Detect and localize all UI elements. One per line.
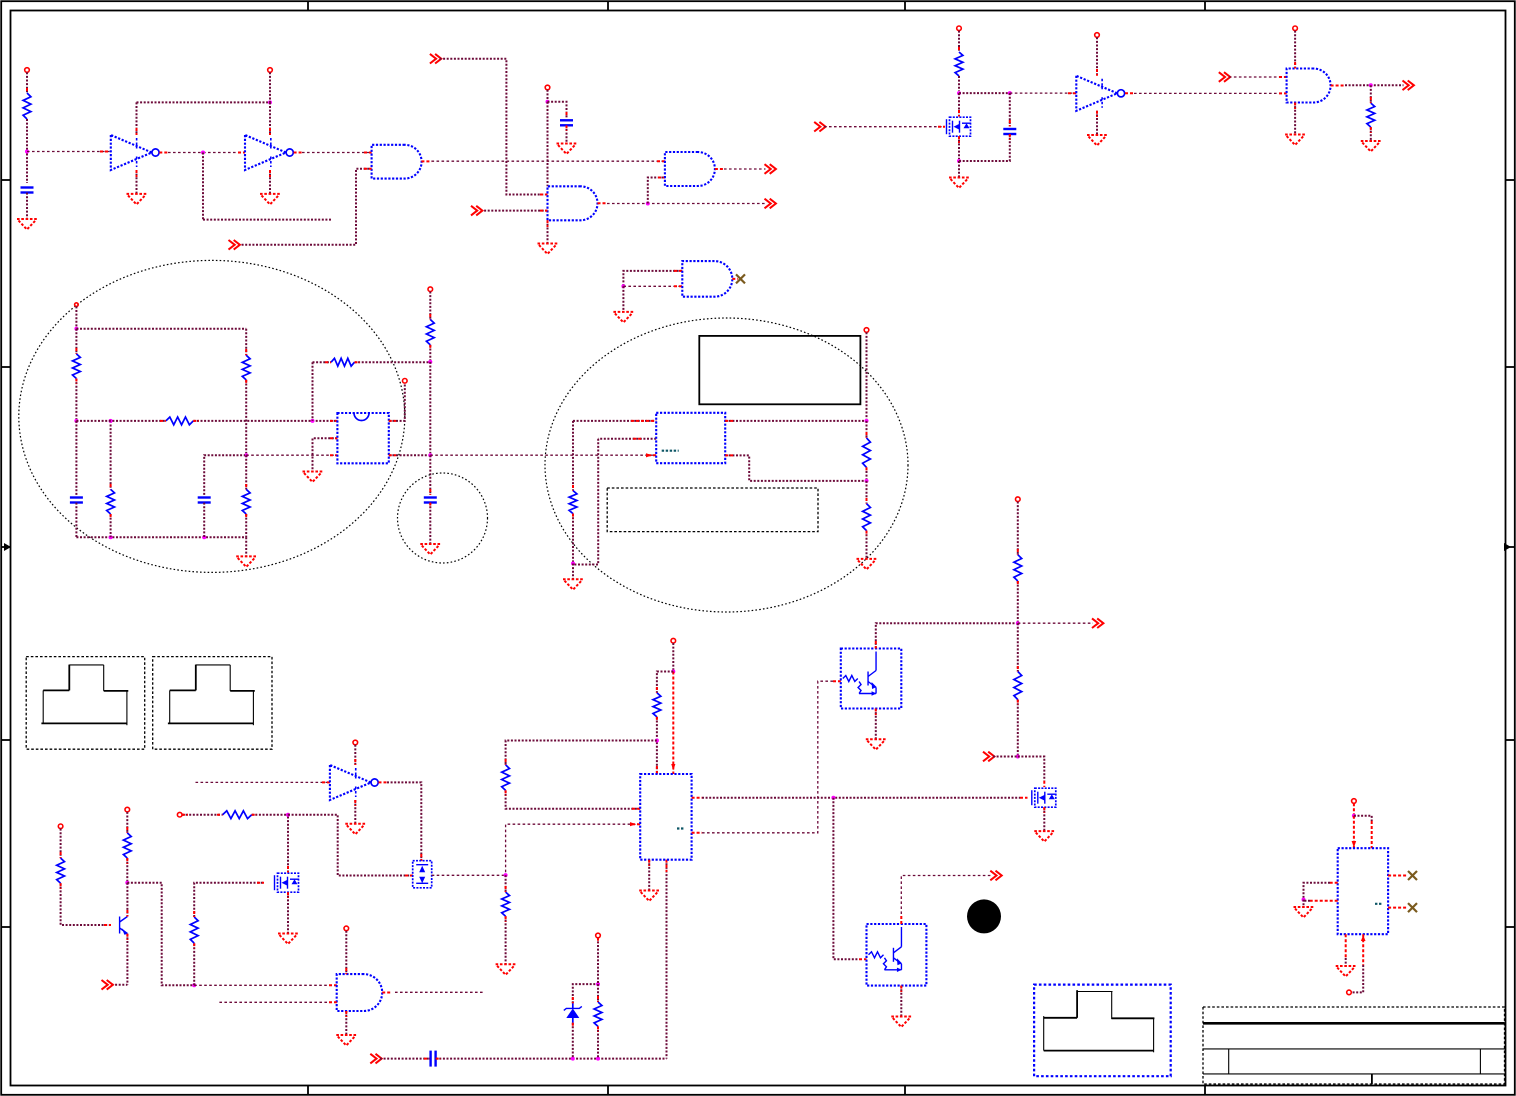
wire R17 to M2 drain node	[252, 814, 288, 816]
power VCC above G3	[545, 85, 550, 90]
node B junction	[74, 327, 78, 331]
wire U5 pinE right	[725, 455, 866, 481]
wire pin to R14	[60, 829, 62, 859]
ground below G6	[336, 1035, 356, 1046]
bottom rail wire right	[436, 1058, 667, 1060]
sheet connector arrow G3 output	[765, 199, 776, 209]
wire VCC to junction	[269, 72, 271, 102]
power VCC above R15	[125, 807, 130, 812]
wire G3 upper net	[440, 59, 548, 195]
wire U2 out to G1	[294, 152, 372, 154]
ground below C2	[557, 144, 577, 155]
resistor R4	[73, 354, 81, 379]
wire U5 pinD right	[725, 420, 866, 422]
capacitor C7	[431, 1051, 436, 1067]
waveform drawing 3	[1044, 990, 1155, 1052]
ground below Q3	[866, 739, 886, 750]
U8 pinB jog wire	[1354, 816, 1372, 849]
AND gate G6	[337, 974, 383, 1011]
wire VCC to R22	[1017, 502, 1019, 555]
U8 ground pin wire	[1345, 934, 1347, 966]
wire node B to R4	[75, 329, 77, 354]
sheet connector arrow Q1 emitter	[102, 980, 113, 990]
junction Q1 collector node	[125, 881, 129, 885]
no-connect X at U8 pinR2	[1408, 903, 1417, 912]
power VCC symbol top-left	[25, 68, 30, 73]
wire arrow to M1 gate	[824, 126, 945, 128]
wire open pin down	[866, 332, 868, 419]
resistor R22	[1014, 555, 1022, 581]
ground below U2	[260, 194, 280, 205]
wire R15 to collector node	[126, 858, 128, 881]
junction bottom rail left	[109, 535, 113, 539]
open pin marker top of RC	[75, 303, 79, 307]
resistor R17	[223, 811, 252, 819]
blue dashed waveform box	[1034, 985, 1171, 1077]
G3 ground pin wire	[547, 220, 549, 243]
sheet connector arrow Q3 node	[1092, 618, 1103, 628]
wire down to C6	[429, 455, 431, 495]
MOSFET M3	[413, 861, 432, 888]
power VCC above G5	[1293, 26, 1298, 31]
wire node C to C4	[75, 421, 77, 495]
ground below U8 left	[1294, 907, 1314, 918]
wire pinB down	[573, 439, 598, 565]
wire R23 to M4 node	[1017, 700, 1019, 755]
capacitor C3	[1003, 129, 1016, 134]
U4 power pin wire	[1096, 37, 1098, 76]
wire C1 to ground	[26, 193, 28, 219]
MOSFET M1	[947, 117, 972, 136]
sheet connector arrow G5 output	[1403, 81, 1414, 91]
junction right chain lower	[865, 479, 869, 483]
power VCC above R10	[428, 287, 433, 292]
wire VCC node to C2	[548, 102, 567, 117]
wire arrow to emitter	[112, 984, 128, 986]
junction Q3 collector node	[1016, 621, 1020, 625]
wire R16 chain	[193, 943, 195, 985]
U4 ground pin wire	[1096, 111, 1098, 135]
converter block U8	[1338, 848, 1388, 934]
U8 pinA red pin	[1352, 816, 1357, 849]
ground below U1	[127, 194, 147, 205]
wire G5 node to R3	[1370, 85, 1372, 103]
right branch middle wire	[245, 380, 247, 453]
G6 output wire	[382, 991, 484, 993]
resistor R18	[502, 892, 510, 916]
inverter U3	[330, 765, 378, 800]
right branch lower wire	[245, 455, 247, 489]
open pin above R14	[58, 824, 63, 829]
ground below B1 pin2	[303, 472, 323, 483]
annotation ellipse 3	[545, 318, 908, 612]
wire U4 out to G5 lower	[1125, 92, 1287, 94]
G6 ground pin wire	[345, 1011, 347, 1035]
U3 power pin wire	[354, 745, 356, 765]
wire C3 top	[1009, 93, 1011, 126]
annotation dashed box 2	[153, 657, 272, 750]
annotation dashed box 1	[26, 657, 145, 750]
U6 ground pin wire	[648, 860, 650, 891]
U1 ground pin wire	[136, 170, 138, 194]
G4 output no-connect stub	[732, 278, 738, 280]
wire G4 lower input	[623, 285, 682, 287]
wire R22 to collector node	[1017, 581, 1019, 622]
wire R14 to Q1 base	[61, 883, 111, 925]
wire drain node right	[959, 92, 1010, 94]
ground below G4 bus	[613, 312, 633, 323]
U6 pinB long red pin	[671, 672, 675, 775]
wire node to M4 drain	[1018, 757, 1045, 788]
wire U5 pinB loop	[598, 438, 656, 440]
inverter U4	[1076, 76, 1124, 111]
wire to R12	[866, 421, 868, 438]
IGBT Q4	[867, 924, 927, 986]
resistor R3	[1367, 103, 1375, 127]
sheet connector arrow Q4 collector	[990, 871, 1001, 881]
junction M1 source node	[957, 159, 961, 163]
power VCC above M1	[957, 26, 962, 31]
wire pin to node B	[75, 306, 77, 327]
wire R19 to bottom rail	[597, 1026, 599, 1058]
capacitor C5	[198, 498, 211, 503]
wire drain node to U4 input	[1010, 92, 1077, 94]
junction M3 output node	[504, 873, 508, 877]
sheet connector arrow G3 lower	[471, 206, 482, 216]
long vertical to U6	[666, 860, 668, 1059]
MOSFET M4	[1032, 788, 1057, 807]
junction R10 bottom	[428, 360, 432, 364]
wire vcc to R1	[26, 72, 28, 93]
wire D1 top loop	[573, 984, 598, 1003]
M2 drain wire	[287, 817, 289, 873]
resistor R8	[166, 417, 193, 425]
wire R3 to ground	[1370, 127, 1372, 141]
U8 pinL2 wire	[1304, 900, 1338, 902]
sheet connector arrow bottom cap	[370, 1054, 381, 1064]
wire R11 to junction	[572, 514, 574, 564]
wire R13 to ground	[866, 531, 868, 559]
junction M1 drain node	[957, 91, 961, 95]
node A junction	[25, 150, 29, 154]
junction VCC zener node	[596, 982, 600, 986]
border zone ticks right	[1506, 180, 1515, 927]
M1 drain wire	[958, 93, 960, 116]
capacitor C6	[424, 498, 437, 503]
junction right branch	[244, 453, 248, 457]
wire VCC to R15	[126, 812, 128, 833]
bottom rail wire	[76, 536, 246, 538]
wire G1 output to G2	[421, 160, 665, 162]
ground in small circle	[420, 544, 440, 555]
junction cap circle top	[428, 453, 432, 457]
U1 power pin wire	[136, 102, 138, 135]
wire C4 to bottom rail	[75, 503, 77, 538]
sheet connector arrow M4 node	[983, 752, 994, 762]
waveform drawing 1	[41, 665, 128, 726]
AND gate G5	[1287, 69, 1331, 103]
resistor R21	[502, 765, 510, 791]
ground below R13	[857, 559, 877, 570]
resistor R1	[23, 93, 31, 119]
resistor R10	[426, 320, 434, 345]
U6 top left branch	[657, 672, 673, 693]
ground below U4	[1087, 135, 1107, 146]
resistor R16	[190, 917, 198, 943]
wire C2 to ground	[566, 125, 568, 143]
wire C3 bottom loop	[959, 134, 1010, 161]
M2 source wire	[287, 892, 289, 933]
wire U5 pinA	[573, 420, 656, 422]
wire R10 to junction	[429, 345, 431, 360]
wire node to R19	[597, 984, 599, 1002]
annotation ellipse 1	[19, 260, 405, 572]
U6 pinL2 wire	[506, 822, 641, 873]
wire G5 output	[1331, 84, 1404, 86]
U2 ground pin wire	[269, 170, 271, 194]
wire R12 to junction	[866, 467, 868, 479]
wire G3 lower input	[481, 210, 548, 212]
top rail wire	[76, 328, 246, 330]
wire B1 pin2 and ground	[313, 438, 338, 471]
G6 power pin wire	[345, 931, 347, 974]
resistor R11	[569, 491, 577, 514]
ground below R11	[563, 579, 583, 590]
ground below Q4	[891, 1017, 911, 1028]
capacitor C4	[70, 498, 83, 503]
power VCC above U8	[1352, 799, 1357, 804]
wire G3 output	[598, 202, 766, 204]
ground below U3	[345, 824, 365, 835]
feedback resistor wire left	[313, 361, 332, 363]
power VCC symbol above U2	[268, 68, 273, 73]
MOSFET M2	[275, 873, 300, 892]
transistor Q1	[120, 917, 128, 935]
U6 pinR2 wire	[692, 681, 841, 833]
wire VCC to R10	[429, 292, 431, 320]
logic block U5	[656, 413, 725, 463]
inverter U2	[245, 135, 293, 170]
ground below M4	[1034, 831, 1054, 842]
resistor R15	[123, 833, 131, 858]
wire drain node to M3	[288, 815, 413, 876]
annotation dashed rectangle	[607, 488, 818, 532]
waveform drawing 2	[168, 665, 255, 726]
junction U6 top node	[671, 670, 675, 674]
junction U6 left loop	[655, 739, 659, 743]
junction G5 output node	[1369, 83, 1373, 87]
ground below U6	[639, 891, 659, 902]
mid-low rail to U5 pinC	[430, 453, 656, 457]
U6 left loop wire	[506, 741, 657, 765]
junction feedback-VCC	[268, 100, 272, 104]
wire U8 left node to ground	[1303, 900, 1305, 907]
wire R21 to U6 pinL1	[506, 790, 641, 808]
open pin right of B1	[403, 379, 408, 384]
wire node A to U1 input	[27, 151, 111, 153]
driver block U6	[640, 774, 691, 860]
annotation circle 2	[398, 473, 488, 563]
feedback wire top	[137, 101, 271, 103]
junction zener bottom	[571, 1057, 575, 1061]
right branch upper wire	[245, 329, 247, 356]
U6 pinR1 wire	[692, 797, 1028, 799]
wire VCC to U8 node	[1353, 803, 1355, 814]
U2 power pin wire	[269, 102, 271, 135]
junction G4 bus	[621, 284, 625, 288]
U8 pinL1 wire	[1304, 883, 1338, 898]
resistor R23	[1014, 672, 1022, 700]
junction U8 left node	[1302, 898, 1306, 902]
stub wire from U1 output node	[203, 153, 332, 220]
sheet connector arrow into G3 upper net	[430, 54, 441, 64]
B1 top notch arc	[354, 413, 369, 421]
ground below M2	[278, 934, 298, 945]
ground below G3	[538, 244, 558, 255]
right border mid arrow	[1504, 543, 1515, 551]
AND gate G4	[682, 261, 732, 297]
wire to R13	[866, 481, 868, 504]
wire B1 right lower pin	[389, 454, 431, 456]
mid rail wire right	[193, 420, 337, 422]
wire G4 bus to ground	[622, 286, 624, 312]
U3 ground pin wire	[354, 800, 356, 824]
power VCC above zener node	[596, 933, 601, 938]
Q3 emitter wire	[875, 709, 877, 740]
AND gate G2	[665, 152, 715, 186]
resistor R20	[653, 693, 661, 717]
Q4 collector wire	[901, 876, 991, 925]
border zone ticks bottom	[308, 1086, 1205, 1095]
IGBT Q3	[841, 649, 902, 709]
right branch to bottom rail	[245, 514, 247, 537]
M1 source wire	[958, 136, 960, 159]
U8 pinR1 stub	[1388, 875, 1407, 877]
ground below RC network	[236, 556, 256, 567]
junction right chain upper	[865, 419, 869, 423]
sheet connector arrow G2 output	[765, 164, 776, 174]
G3 power vertical wire	[547, 102, 549, 187]
feedback resistor wire right	[355, 361, 431, 363]
wire bottom rail to ground	[245, 537, 247, 556]
wire U1 out to U2 in	[159, 152, 245, 154]
G5 power pin wire	[1294, 31, 1296, 69]
wire node A down to C1	[26, 154, 28, 184]
M4 source wire	[1043, 807, 1045, 831]
wire G2 output	[715, 168, 766, 170]
node D junction	[109, 419, 113, 423]
ground below R3	[1361, 141, 1381, 152]
wire M1 source to ground	[958, 161, 960, 178]
open pin left of R17	[177, 812, 182, 817]
wire VCC to junction G3	[547, 90, 549, 102]
ground below U8	[1336, 966, 1356, 977]
power VCC above U6	[671, 638, 676, 643]
U3 input wire	[196, 781, 330, 783]
AND gate G3	[548, 186, 598, 220]
ground below R18	[496, 964, 516, 975]
annotation solid rectangle	[699, 336, 860, 404]
ground below C1	[17, 219, 37, 230]
wire B1 right pin to open pin	[389, 383, 405, 421]
no-connect X at G4 output	[736, 274, 745, 283]
power VCC above U4	[1095, 33, 1100, 38]
border zone ticks left	[1, 180, 10, 927]
wire arrow to C7	[380, 1058, 431, 1060]
wire node D down	[110, 421, 112, 490]
wire G3 node to G2 lower	[648, 178, 665, 204]
resistor R12	[863, 438, 871, 468]
capacitor C1	[21, 188, 34, 193]
G6 lower input wire	[219, 1001, 336, 1003]
M3 right wire	[432, 874, 506, 876]
junction long rail left	[192, 983, 196, 987]
U3 output wire to M3 gate	[379, 782, 422, 860]
black filled circle annotation	[967, 899, 1001, 933]
junction U1 output node	[201, 151, 205, 155]
wire junction to mid-low node	[429, 362, 431, 453]
timer block B1	[337, 413, 388, 463]
Q1 emitter wire	[126, 934, 128, 985]
resistor R19	[594, 1002, 602, 1026]
resistor R7	[107, 489, 115, 514]
ground below G5	[1285, 135, 1305, 146]
U8 pinR2 stub	[1388, 907, 1407, 909]
wire D1 bottom	[572, 1023, 574, 1059]
wire R16 top to M2 gate	[194, 883, 264, 917]
sheet connector arrow G1 lower	[229, 240, 240, 250]
wire C5 to bottom rail	[203, 503, 205, 538]
resistor R2	[955, 52, 963, 76]
wire R2 to drain node	[958, 76, 960, 91]
zener diode D1	[564, 1003, 582, 1023]
wire node to R18	[505, 875, 507, 892]
wire B1 node up to feedback	[312, 362, 314, 421]
wire G4 input bus	[623, 271, 682, 286]
resistor R9 feedback	[331, 358, 354, 366]
wire pin to R17	[182, 814, 223, 816]
junction R11 ground node	[571, 562, 575, 566]
wire arrow to M4 node	[993, 756, 1018, 758]
wire R18 to ground	[505, 916, 507, 964]
junction Q4 gate node	[831, 796, 835, 800]
wire C5 to mid-low rail	[204, 455, 245, 495]
wire arrow to G5 upper	[1229, 76, 1287, 78]
wire collector node right-down	[127, 883, 194, 986]
Q3 collector wire	[876, 623, 1018, 648]
wire pinA branch down	[572, 421, 574, 491]
sheet connector arrow M1 gate	[814, 122, 825, 132]
G5 ground pin wire	[1294, 103, 1296, 135]
junction G3 output node	[646, 202, 650, 206]
junction M2 drain node	[286, 813, 290, 817]
mid rail wire left	[76, 420, 165, 422]
wire VCC to R2	[958, 31, 960, 52]
wire R7 to bottom rail	[110, 514, 112, 537]
junction C3 top	[1008, 91, 1012, 95]
ground below M1	[949, 178, 969, 189]
node C junction	[74, 419, 78, 423]
left border mid arrow	[1, 543, 11, 551]
long rail to G6 upper	[194, 984, 337, 986]
sheet connector arrow G5 upper	[1219, 72, 1230, 82]
wire R4 to node C	[75, 379, 77, 420]
resistor R14	[57, 858, 65, 883]
wire VCC down to node	[597, 938, 599, 984]
wire VCC to junction U6	[672, 643, 674, 670]
title block	[1203, 1007, 1505, 1084]
AND gate G1	[372, 145, 422, 179]
